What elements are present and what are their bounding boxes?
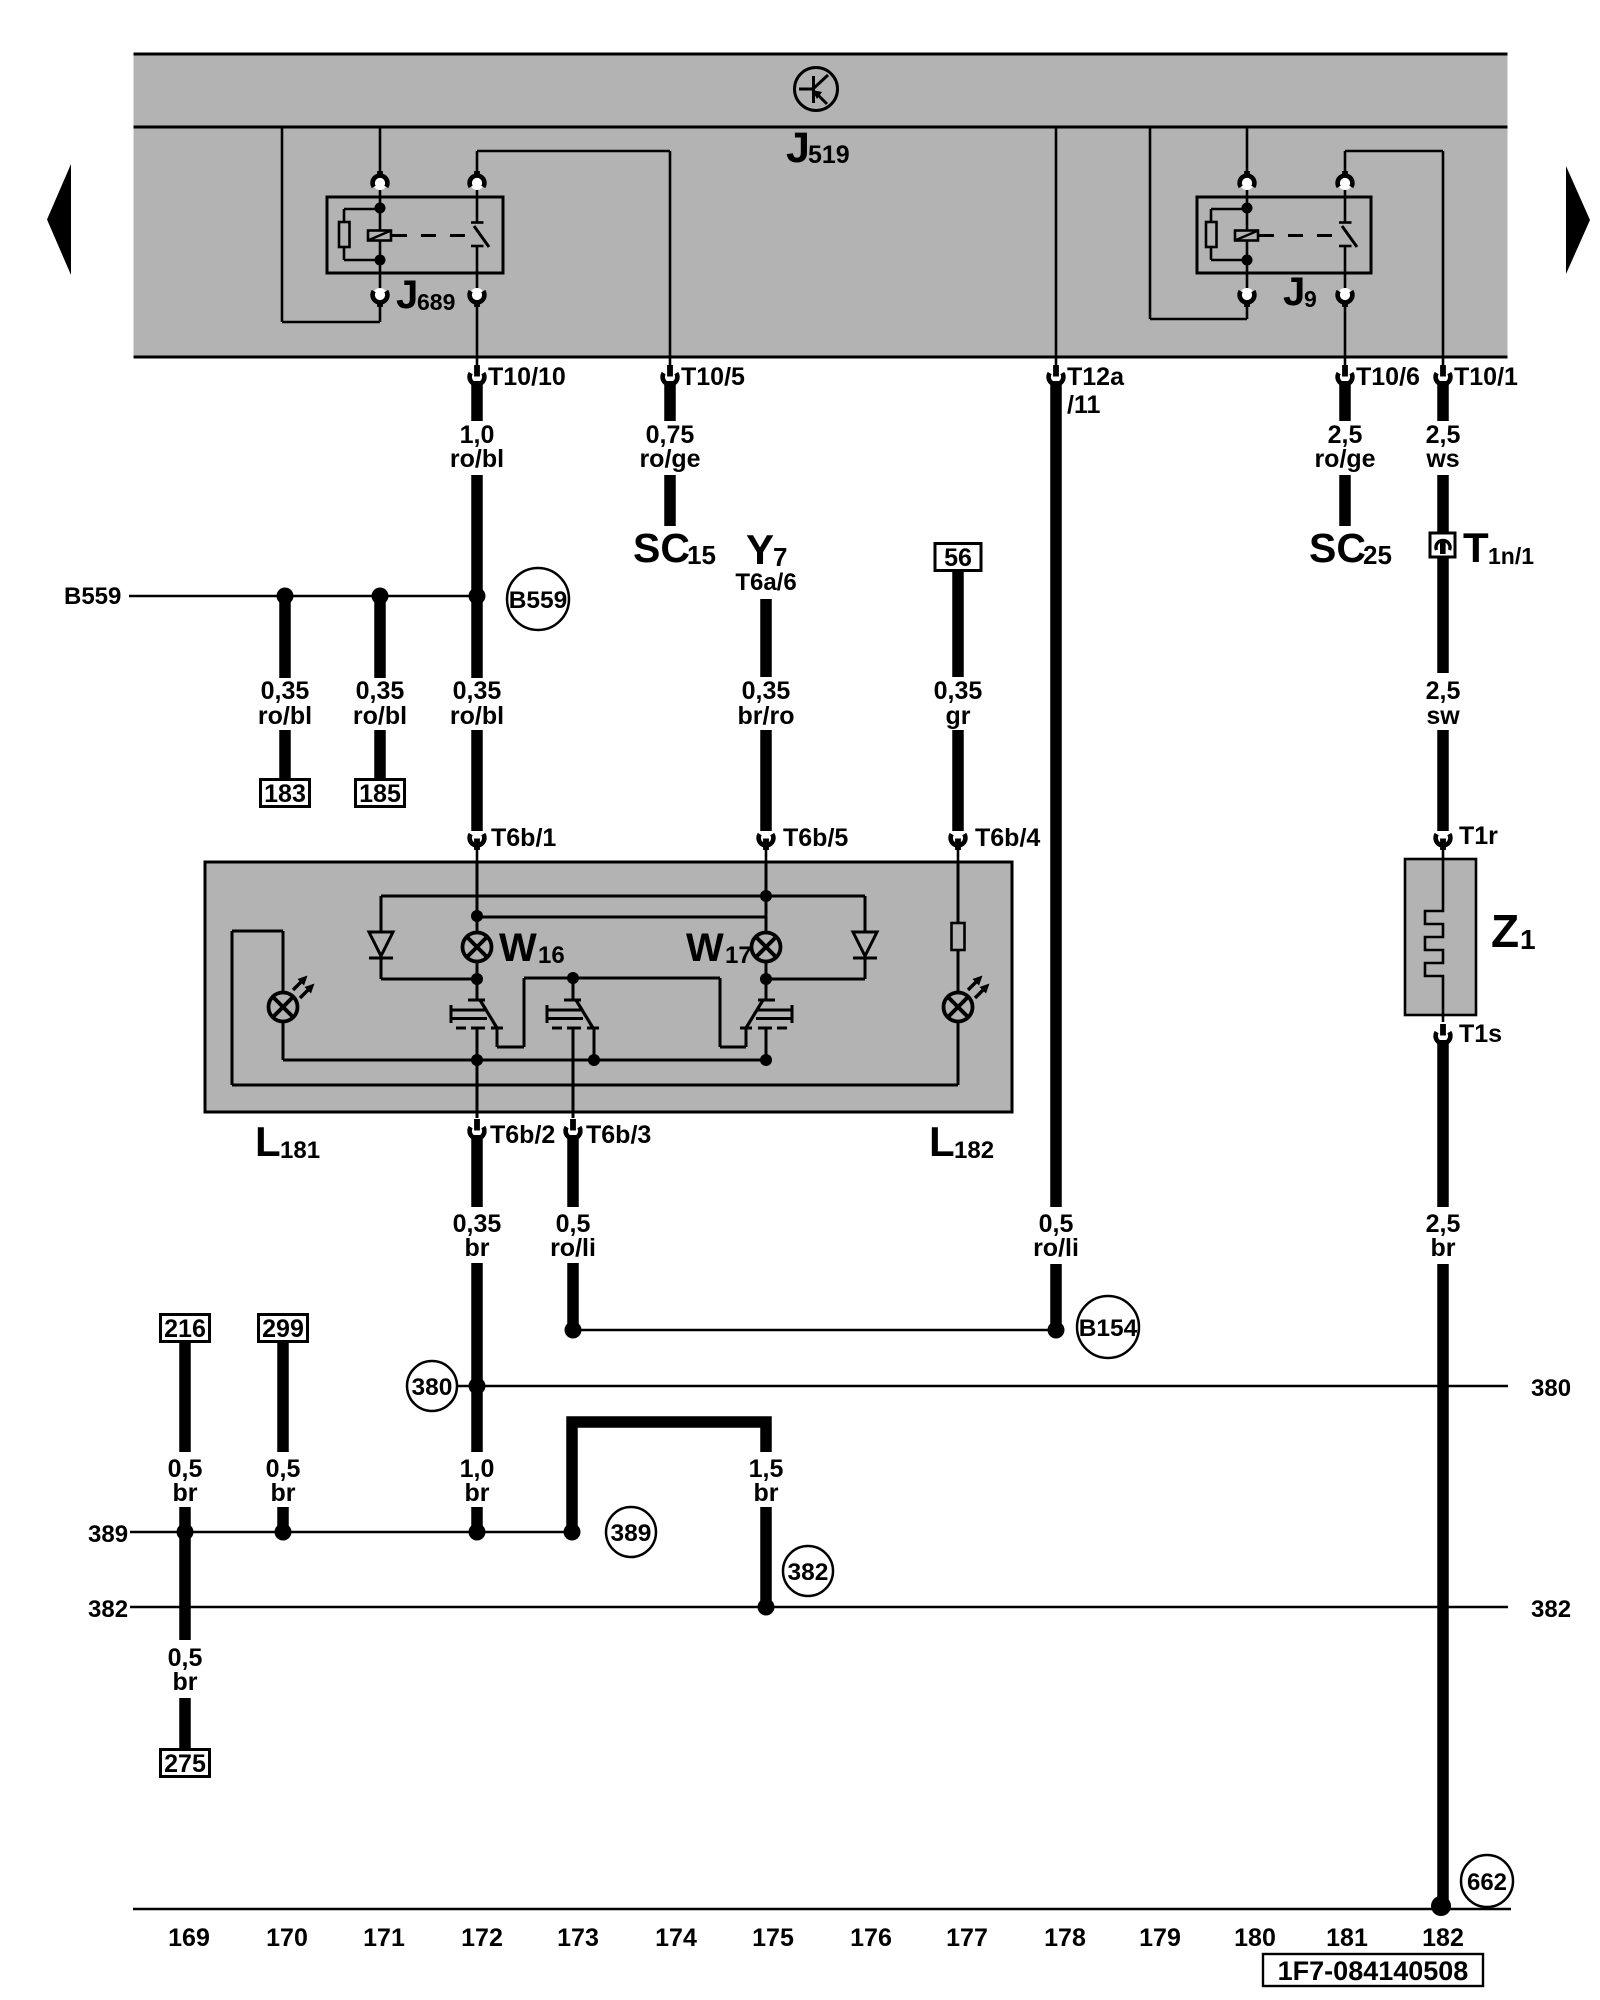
svg-text:br: br (173, 1668, 198, 1696)
wire T12a/11 vertical run (1050, 381, 1062, 1207)
svg-text:183: 183 (264, 780, 306, 808)
module rail H5 (232, 931, 958, 1085)
svg-text:0,35: 0,35 (356, 677, 405, 705)
transistor Q2 (547, 978, 599, 1028)
svg-text:182: 182 (1422, 1924, 1464, 1952)
svg-text:T6b/4: T6b/4 (975, 824, 1040, 852)
svg-text:br: br (173, 1479, 198, 1507)
svg-text:176: 176 (850, 1924, 892, 1952)
bridge wire 1,5 br (572, 1422, 783, 1607)
svg-text:J: J (396, 273, 418, 317)
wire 0,5 ro/li from T12a (1033, 1210, 1079, 1330)
right page arrow (1566, 166, 1590, 274)
svg-text:T6a/6: T6a/6 (735, 569, 796, 596)
svg-text:ws: ws (1425, 445, 1459, 473)
junction dots on 389 (177, 1524, 194, 1541)
wire 2,5 ws from T10/1 (1425, 381, 1460, 532)
wire 0,35 ro/bl branch 185 (353, 596, 407, 782)
svg-text:gr: gr (946, 702, 971, 730)
svg-text:J: J (1283, 270, 1305, 314)
svg-text:181: 181 (1326, 1924, 1368, 1952)
svg-text:519: 519 (808, 141, 850, 169)
node line 380 (457, 1385, 477, 1387)
svg-text:T10/10: T10/10 (488, 363, 566, 391)
svg-text:689: 689 (417, 289, 455, 315)
svg-text:W: W (686, 926, 724, 970)
terminal T6b/2 (470, 1112, 556, 1149)
svg-text:T1s: T1s (1459, 1020, 1502, 1048)
svg-text:br: br (754, 1479, 779, 1507)
svg-text:382: 382 (88, 1596, 128, 1623)
module rail H4 (283, 1059, 766, 1062)
node line 382 (88, 1596, 1508, 1623)
svg-text:180: 180 (1234, 1924, 1276, 1952)
label J519 (786, 124, 850, 172)
svg-text:56: 56 (944, 544, 972, 572)
diode D1 (369, 896, 477, 979)
svg-text:380: 380 (1531, 1375, 1571, 1402)
svg-text:ro/bl: ro/bl (450, 445, 504, 473)
svg-text:T6b/5: T6b/5 (783, 824, 848, 852)
module top feed T6b/5 (765, 862, 768, 933)
svg-text:SC: SC (633, 525, 690, 571)
wire 0,35 br/ro from Y7 (738, 599, 795, 831)
svg-text:175: 175 (752, 1924, 794, 1952)
svg-text:T12a: T12a (1067, 363, 1125, 391)
diode D2 (766, 896, 877, 979)
svg-text:380: 380 (412, 1374, 453, 1401)
label L181 (255, 1118, 320, 1165)
svg-text:7: 7 (773, 542, 787, 572)
svg-text:L: L (929, 1118, 955, 1165)
svg-text:171: 171 (363, 1924, 405, 1952)
circle 382 (783, 1546, 833, 1596)
svg-text:1n/1: 1n/1 (1488, 543, 1534, 569)
label W16 (499, 926, 565, 970)
lamp W17 (752, 933, 781, 980)
svg-text:17: 17 (725, 942, 752, 969)
wire 0,5 br from 299 (266, 1341, 301, 1526)
circle 380 (407, 1361, 457, 1411)
svg-text:J: J (786, 124, 810, 172)
terminal T1s (1436, 1015, 1502, 1048)
label J689 (396, 273, 455, 317)
svg-text:0,35: 0,35 (453, 677, 502, 705)
terminal T10/10 (470, 358, 566, 391)
ground box 275 (161, 1750, 210, 1777)
wire 1,0 ro/bl from T10/10 (450, 381, 504, 678)
svg-text:169: 169 (168, 1924, 210, 1952)
module outputs to T6b/2 T6b/3 (476, 1028, 479, 1112)
svg-text:172: 172 (461, 1924, 503, 1952)
wire 0,35 gr (934, 570, 983, 831)
label J9 (1283, 270, 1317, 314)
svg-text:T6b/2: T6b/2 (490, 1121, 555, 1149)
wire 2,5 br (1426, 1040, 1461, 1903)
module rail H1 (381, 895, 865, 898)
svg-text:br: br (465, 1234, 490, 1262)
svg-text:216: 216 (164, 1315, 206, 1343)
svg-text:ro/bl: ro/bl (450, 702, 504, 730)
svg-text:W: W (499, 926, 537, 970)
terminal T6b/5 (759, 824, 849, 862)
svg-text:B154: B154 (1079, 1315, 1138, 1342)
terminal T6b/3 (566, 1112, 652, 1149)
ground box 183 (261, 780, 310, 807)
svg-text:T10/5: T10/5 (681, 363, 745, 391)
wire 0,35 br from T6b/2 (453, 1135, 502, 1452)
ground box 185 (356, 780, 405, 807)
Q1 drain loop (497, 978, 573, 1047)
module top feed T6b/1 (476, 862, 479, 916)
terminal T10/6 (1338, 358, 1420, 391)
transistor Q1 (451, 978, 503, 1028)
svg-text:1: 1 (1520, 924, 1536, 955)
svg-text:0,35: 0,35 (742, 677, 791, 705)
left page arrow (47, 164, 71, 275)
module dots bottom (471, 1054, 483, 1066)
ground box 216 (161, 1315, 210, 1342)
svg-text:ro/ge: ro/ge (1314, 445, 1375, 473)
svg-text:0,35: 0,35 (261, 677, 310, 705)
svg-text:Y: Y (746, 526, 774, 573)
junction dot 662 (1431, 1896, 1451, 1916)
svg-text:T6b/3: T6b/3 (586, 1121, 651, 1149)
terminal T12a/11 (1049, 358, 1125, 419)
svg-text:182: 182 (954, 1137, 994, 1164)
svg-text:Z: Z (1491, 905, 1519, 957)
circle B559 (507, 568, 569, 630)
terminal T10/5 (663, 358, 745, 391)
ground box 299 (259, 1315, 308, 1342)
solenoid label Y7 (746, 526, 787, 573)
svg-text:1F7-084140508: 1F7-084140508 (1278, 1956, 1469, 1986)
svg-text:T10/6: T10/6 (1356, 363, 1420, 391)
node line 389 (88, 1521, 580, 1548)
terminal T6b/1 (470, 824, 557, 862)
label L182 (929, 1118, 994, 1165)
svg-text:ro/bl: ro/bl (258, 702, 312, 730)
svg-text:389: 389 (88, 1521, 128, 1548)
resistor Z1 (1405, 859, 1476, 1015)
grid numbers (168, 1924, 1464, 1952)
wire 0,5 br to 275 (168, 1532, 203, 1750)
svg-text:16: 16 (538, 942, 565, 969)
svg-text:ro/li: ro/li (1033, 1234, 1079, 1262)
svg-text:181: 181 (280, 1137, 320, 1164)
svg-text:9: 9 (1304, 286, 1317, 312)
svg-text:170: 170 (266, 1924, 308, 1952)
terminal T6b/4 (951, 824, 1041, 862)
svg-text:662: 662 (1467, 1869, 1507, 1896)
K-bus symbol (795, 68, 838, 111)
module dots top (471, 910, 483, 922)
terminal T1r (1436, 822, 1499, 860)
fuse label SC25 (1309, 525, 1392, 571)
junction dots on B559 line (277, 588, 294, 605)
svg-text:179: 179 (1139, 1924, 1181, 1952)
svg-text:sw: sw (1426, 702, 1460, 730)
control unit J519 (134, 54, 1508, 357)
wire 0,5 br from 216 (168, 1341, 203, 1526)
wire 0,35 ro/bl main (450, 677, 504, 831)
svg-text:T6b/1: T6b/1 (491, 824, 556, 852)
svg-text:178: 178 (1044, 1924, 1086, 1952)
svg-text:ro/li: ro/li (550, 1234, 596, 1262)
lamp W16 (463, 916, 492, 979)
svg-text:177: 177 (946, 1924, 988, 1952)
node line B154 (573, 1329, 1056, 1331)
module rail H2 (477, 916, 766, 919)
svg-text:B559: B559 (509, 587, 568, 614)
wire 0,5 ro/li from T6b/3 (550, 1135, 596, 1330)
transistor Q3 (740, 978, 792, 1028)
svg-text:br: br (271, 1479, 296, 1507)
svg-text:T10/1: T10/1 (1454, 363, 1518, 391)
terminal T10/1 (1436, 358, 1518, 391)
circle 389 (606, 1507, 656, 1557)
bulb monitoring module box (205, 862, 1012, 1112)
svg-text:0,35: 0,35 (934, 677, 983, 705)
connector T1n/1 (1430, 524, 1534, 571)
svg-text:299: 299 (262, 1315, 304, 1343)
svg-text:275: 275 (164, 1750, 206, 1778)
part number box (1263, 1954, 1483, 1986)
circle 662 (1461, 1855, 1513, 1907)
svg-text:T1r: T1r (1459, 822, 1498, 850)
svg-text:389: 389 (611, 1520, 652, 1547)
wire 2,5 sw (1426, 557, 1461, 831)
wire 0,35 ro/bl branch 183 (258, 596, 312, 782)
relay J689 (282, 127, 670, 358)
svg-text:/11: /11 (1067, 391, 1100, 419)
svg-text:173: 173 (557, 1924, 599, 1952)
relay J9 (1150, 127, 1443, 358)
wire 0,75 ro/ge from T10/5 (639, 381, 700, 526)
svg-text:2,5: 2,5 (1426, 677, 1461, 705)
svg-text:L: L (255, 1118, 281, 1165)
svg-text:185: 185 (359, 780, 401, 808)
svg-text:br: br (465, 1479, 490, 1507)
svg-text:br: br (1431, 1234, 1456, 1262)
wire 2,5 ro/ge from T10/6 (1314, 381, 1375, 526)
svg-text:T: T (1463, 524, 1489, 571)
label Z1 (1491, 905, 1536, 957)
svg-text:382: 382 (788, 1559, 829, 1586)
bottom rail (133, 1908, 1511, 1910)
svg-text:SC: SC (1309, 525, 1366, 571)
Q3 drain loop (573, 978, 746, 1047)
svg-text:br/ro: br/ro (738, 702, 795, 730)
svg-text:15: 15 (687, 540, 716, 570)
right indicator lamp (944, 923, 990, 1085)
node line B559 (64, 583, 477, 610)
svg-text:382: 382 (1531, 1596, 1571, 1623)
fuse label SC15 (633, 525, 716, 571)
wire T12a inside J519 (1055, 127, 1058, 358)
terminal box 56 (935, 544, 981, 571)
label W17 (686, 926, 752, 970)
circle B154 (1077, 1296, 1139, 1358)
svg-text:174: 174 (655, 1924, 697, 1952)
svg-text:B559: B559 (64, 583, 121, 610)
svg-text:25: 25 (1363, 540, 1392, 570)
wire 1,0 br (460, 1455, 495, 1526)
svg-text:ro/bl: ro/bl (353, 702, 407, 730)
left indicator lamp (232, 931, 315, 1060)
module top feed T6b/4 (957, 862, 960, 923)
svg-text:ro/ge: ro/ge (639, 445, 700, 473)
